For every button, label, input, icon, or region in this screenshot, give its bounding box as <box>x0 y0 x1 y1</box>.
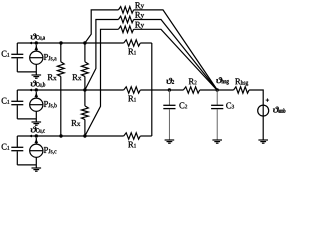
capacitor C1 (a) <box>16 43 18 54</box>
wire node row c <box>17 135 123 137</box>
source theta_amb <box>262 105 264 140</box>
node dot source (c) <box>35 134 38 137</box>
plus sign <box>266 99 269 101</box>
label theta_hsg <box>216 77 229 84</box>
ground (c) <box>32 167 42 169</box>
wire row b to Ry2 <box>85 20 119 91</box>
ground C2 <box>165 139 175 141</box>
label P_Js,c <box>44 147 57 154</box>
node dot row c / Rx(b-c) <box>83 134 86 137</box>
resistor Rx (a-b) <box>84 43 86 62</box>
capacitor C1 (c) <box>16 136 18 147</box>
wire node row a <box>17 42 123 44</box>
wire row b to R2 <box>140 89 183 91</box>
resistor Ry3 <box>118 26 133 33</box>
node arrow (a) <box>29 42 32 45</box>
wire Ry3 to hsg <box>134 29 217 90</box>
capacitor C2 <box>168 90 170 105</box>
label Ry3 <box>135 22 144 29</box>
wire row a right <box>140 42 152 44</box>
label Ry2 <box>135 12 144 19</box>
label R1 (row c) <box>128 142 136 148</box>
ground (a) <box>32 74 42 76</box>
label Rx (a-c) <box>48 74 57 80</box>
resistor Rx (b-c) <box>84 90 86 106</box>
ground (b) <box>32 121 42 123</box>
label Ry1 <box>135 2 144 9</box>
node dot source (b) <box>35 88 38 91</box>
label Rx (a-b) <box>72 74 81 80</box>
resistor R1 (row b) <box>124 87 141 93</box>
label R1 (row b) <box>128 96 136 102</box>
node dot row a / Rx(a-b) <box>83 41 86 44</box>
node dot source (a) <box>35 41 38 44</box>
wire bottom (b) <box>17 118 36 120</box>
current source P_Js,b <box>30 98 43 111</box>
node theta_hsg <box>216 88 219 91</box>
label Rx (b-c) <box>71 120 80 126</box>
resistor R2 <box>183 87 199 93</box>
label P_Js,a <box>44 54 57 61</box>
node dot row a / Rx(a-c) <box>59 41 62 44</box>
capacitor C3 <box>216 90 218 105</box>
label P_Js,b <box>44 101 57 108</box>
current source P_Js,a <box>30 51 43 64</box>
resistor R1 (row c) <box>124 133 141 139</box>
resistor Rhsg <box>234 87 250 93</box>
label theta_2 <box>166 78 174 84</box>
wire node row b <box>17 89 123 91</box>
label theta_Cu,c <box>31 127 45 134</box>
ground C3 <box>212 139 222 141</box>
node theta_2 <box>168 88 171 91</box>
capacitor C1 (b) <box>16 90 18 101</box>
label C2 <box>179 102 187 108</box>
label theta_Cu,a <box>31 34 45 41</box>
node dot row c / Rx(a-c) <box>59 134 62 137</box>
label R1 (row a) <box>128 49 136 55</box>
label R2 <box>189 78 197 84</box>
resistor Ry2 <box>118 16 133 23</box>
wire row a to Ry1 <box>85 10 119 43</box>
wire vertical a-c <box>151 43 153 136</box>
wire bottom (c) <box>17 164 36 166</box>
node dot row b / Rx(a-b) <box>83 88 86 91</box>
resistor Ry1 <box>118 7 133 14</box>
label theta_Cu,b <box>31 81 46 88</box>
wire Ry2 to hsg <box>134 20 218 91</box>
label C1 (a) <box>2 51 10 57</box>
wire Ry1 to hsg <box>134 10 218 90</box>
label C1 (b) <box>2 98 10 104</box>
node arrow (b) <box>29 89 32 92</box>
resistor Rx (a-c) <box>60 43 62 62</box>
wire bottom (a) <box>17 71 36 73</box>
wire row c to Ry3 <box>85 29 119 136</box>
node arrow (c) <box>29 135 32 138</box>
label theta_amb <box>273 107 285 113</box>
wire R2 to Rhsg <box>200 89 234 91</box>
resistor R1 (row a) <box>124 40 141 46</box>
ground amb <box>258 139 268 141</box>
wire row c right <box>140 135 152 137</box>
current source P_Js,c <box>30 144 43 157</box>
label Rhsg <box>235 78 248 86</box>
wire Rhsg corner to amb <box>249 90 263 105</box>
label C1 (c) <box>2 144 10 150</box>
label C3 <box>226 102 234 108</box>
